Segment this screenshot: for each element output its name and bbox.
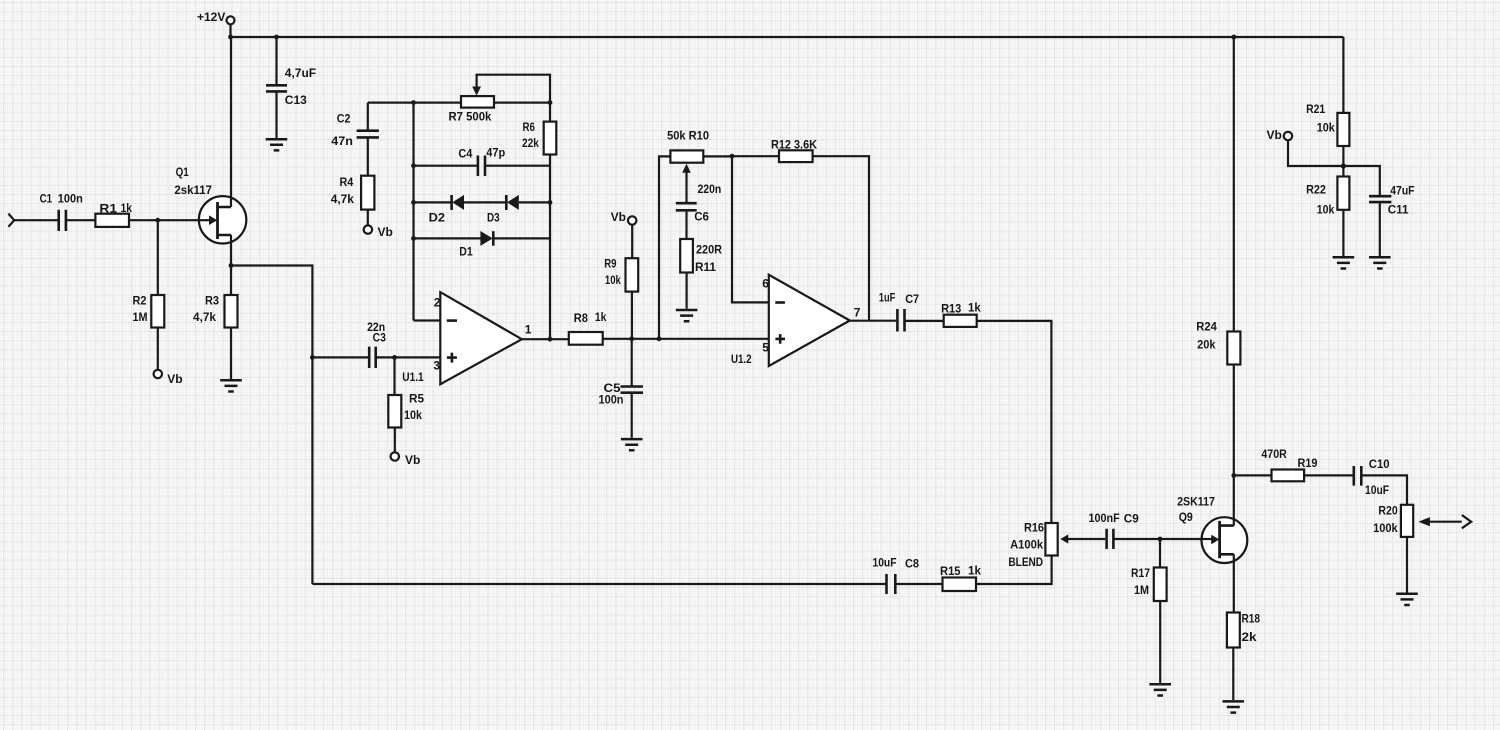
junction Vb divider node bbox=[1341, 163, 1346, 168]
wire Q9 source down bbox=[1233, 554, 1235, 612]
junction Q1 source node bbox=[229, 263, 234, 268]
wire R10 branch up bbox=[659, 156, 670, 338]
svg-text:47uF: 47uF bbox=[1390, 184, 1414, 198]
diode D2 bbox=[414, 195, 465, 225]
svg-text:R20: R20 bbox=[1378, 504, 1398, 518]
wire U1.2 output bbox=[850, 320, 897, 322]
svg-text:D2: D2 bbox=[429, 211, 446, 225]
svg-text:Vb: Vb bbox=[378, 225, 393, 239]
capacitor C9 100nF bbox=[1089, 511, 1140, 549]
svg-text:2sk117: 2sk117 bbox=[174, 183, 212, 197]
Vb terminal above R9 bbox=[611, 210, 637, 225]
resistor R15 1k bbox=[940, 564, 981, 592]
ground below R22 bbox=[1333, 257, 1355, 268]
svg-text:D1: D1 bbox=[459, 245, 473, 259]
wire R4 bottom stub bbox=[367, 210, 369, 226]
wire R17 to ground bbox=[1159, 601, 1161, 683]
wire R7 right terminal bbox=[494, 101, 550, 103]
junction R9/C5 on main line bbox=[629, 336, 634, 341]
wire C2 top node to R7 bbox=[368, 101, 461, 103]
resistor R5 10k bbox=[388, 392, 424, 428]
svg-text:1: 1 bbox=[525, 323, 532, 337]
wire Vb to R9 bbox=[631, 225, 633, 259]
ground below R17 bbox=[1149, 684, 1171, 695]
potentiometer R20 100k bbox=[1373, 504, 1462, 537]
resistor R21 10k bbox=[1306, 102, 1349, 146]
wire R19 to C10 bbox=[1304, 474, 1352, 476]
wire D2 to D3 bbox=[464, 201, 506, 203]
svg-text:10uF: 10uF bbox=[1365, 483, 1389, 497]
potentiometer R7 500k bbox=[449, 75, 551, 124]
svg-text:R16: R16 bbox=[1024, 521, 1044, 535]
wire R2 top stub bbox=[157, 220, 159, 295]
svg-text:U1.2: U1.2 bbox=[731, 352, 752, 366]
capacitor C6 220n bbox=[676, 182, 722, 224]
capacitor C7 1uF bbox=[879, 291, 919, 332]
svg-text:1M: 1M bbox=[133, 310, 148, 324]
wire R18 to ground bbox=[1232, 648, 1234, 701]
wire node B bus bbox=[549, 155, 551, 340]
junction Q9 drain/R19 bbox=[1231, 473, 1236, 478]
resistor R24 20k bbox=[1196, 319, 1240, 364]
wire C8 to R15 bbox=[896, 583, 942, 585]
svg-text:Q1: Q1 bbox=[176, 165, 189, 179]
wire R11 to ground bbox=[685, 273, 687, 309]
svg-text:2SK117: 2SK117 bbox=[1177, 495, 1215, 509]
resistor R13 1k bbox=[941, 300, 981, 327]
wire C13 bottom stub bbox=[275, 93, 277, 139]
svg-text:Vb: Vb bbox=[167, 372, 182, 386]
Vb terminal below R2 bbox=[154, 370, 183, 386]
svg-text:A100k: A100k bbox=[1010, 538, 1043, 552]
wire C3 left bbox=[312, 356, 368, 358]
svg-text:10k: 10k bbox=[605, 273, 621, 287]
wire Q1 source down bbox=[230, 235, 232, 295]
svg-text:10uF: 10uF bbox=[873, 555, 897, 569]
wire U1.2 inverting input branch bbox=[732, 156, 769, 302]
svg-text:Q9: Q9 bbox=[1179, 510, 1193, 524]
svg-text:R19: R19 bbox=[1298, 456, 1318, 470]
resistor R17 1M bbox=[1131, 566, 1167, 601]
svg-text:R1: R1 bbox=[99, 201, 117, 215]
wire R5 bottom stub bbox=[394, 428, 396, 453]
wire node A bus bbox=[412, 103, 414, 321]
capacitor C10 10uF bbox=[1354, 457, 1390, 497]
svg-text:R24: R24 bbox=[1196, 319, 1217, 333]
capacitor C4 47p bbox=[414, 146, 551, 176]
svg-text:R2: R2 bbox=[133, 294, 147, 308]
junction D1 line/node A bbox=[411, 236, 416, 241]
svg-text:C8: C8 bbox=[905, 557, 919, 571]
svg-text:2: 2 bbox=[434, 295, 441, 309]
diode D3 bbox=[487, 195, 550, 225]
capacitor C1 100n bbox=[40, 191, 83, 231]
capacitor C13 4,7uF bbox=[266, 66, 316, 107]
ground below C11 bbox=[1369, 257, 1391, 268]
wire Vb to divider node bbox=[1288, 140, 1343, 166]
svg-text:Vb: Vb bbox=[611, 210, 626, 224]
wire R15 to R16 bottom bbox=[976, 556, 1052, 585]
resistor R11 220R bbox=[680, 239, 722, 274]
junction node B top bbox=[548, 100, 553, 105]
wire U1.1 inverting input bbox=[414, 319, 441, 321]
svg-text:C1: C1 bbox=[40, 191, 53, 205]
wire R2 bottom stub bbox=[157, 328, 159, 370]
ground below C13 bbox=[266, 139, 288, 150]
svg-text:R12 3.6K: R12 3.6K bbox=[771, 138, 817, 152]
svg-text:5: 5 bbox=[762, 341, 769, 355]
resistor R12 3.6K bbox=[771, 138, 817, 163]
svg-text:R7 500k: R7 500k bbox=[449, 110, 492, 124]
junction D2 line/node A bbox=[411, 200, 416, 205]
ground below R20 bbox=[1396, 594, 1418, 605]
wire bottom dry rail bbox=[312, 583, 885, 585]
svg-text:6: 6 bbox=[762, 277, 769, 291]
wire C5 top stub bbox=[631, 339, 633, 386]
wire dry-signal path to bottom rail bbox=[231, 266, 312, 585]
wire R12 to U1.2 output bbox=[813, 156, 869, 320]
svg-text:2k: 2k bbox=[1242, 630, 1257, 644]
capacitor C3 22n bbox=[367, 320, 386, 368]
wire R22 to ground bbox=[1342, 210, 1344, 256]
junction rail/Q1 drain bbox=[228, 35, 233, 40]
svg-text:1uF: 1uF bbox=[879, 291, 895, 305]
wire R17 top stub bbox=[1159, 539, 1161, 568]
resistor R1 1k bbox=[95, 201, 132, 227]
wire C2 top stub bbox=[367, 103, 369, 130]
svg-text:R3: R3 bbox=[205, 294, 219, 308]
wire C10 to R20 top bbox=[1362, 475, 1407, 504]
wire R6 top stub bbox=[549, 103, 551, 122]
svg-text:C2: C2 bbox=[337, 111, 351, 125]
junction R10 branch on main line bbox=[657, 336, 662, 341]
potentiometer R16 A100k BLEND bbox=[1008, 521, 1105, 570]
svg-text:220R: 220R bbox=[696, 243, 722, 257]
svg-text:R5: R5 bbox=[409, 392, 424, 406]
wire R1 to Q1 gate bbox=[129, 219, 210, 221]
svg-text:100n: 100n bbox=[58, 191, 83, 205]
svg-text:10k: 10k bbox=[1317, 203, 1335, 217]
wire C13 top stub bbox=[275, 37, 277, 85]
resistor R19 470R bbox=[1261, 447, 1317, 481]
wire C5 to ground bbox=[631, 394, 633, 438]
svg-text:470R: 470R bbox=[1261, 447, 1287, 461]
svg-text:1k: 1k bbox=[595, 310, 607, 324]
junction node A top bbox=[411, 100, 416, 105]
wire U1.1 output bbox=[522, 338, 569, 340]
svg-text:+12V: +12V bbox=[197, 10, 225, 24]
svg-text:U1.1: U1.1 bbox=[402, 370, 424, 384]
svg-text:4,7uF: 4,7uF bbox=[285, 66, 316, 80]
resistor R4 4,7k bbox=[331, 175, 375, 209]
junction R10/R12/pin6 bbox=[730, 154, 735, 159]
svg-text:C10: C10 bbox=[1369, 457, 1390, 471]
svg-text:C7: C7 bbox=[905, 292, 919, 306]
potentiometer R10 50k bbox=[667, 128, 709, 202]
svg-text:C4: C4 bbox=[458, 147, 472, 161]
svg-text:100k: 100k bbox=[1373, 521, 1398, 535]
resistor R18 2k bbox=[1227, 612, 1260, 648]
svg-text:220n: 220n bbox=[698, 182, 722, 196]
svg-text:47p: 47p bbox=[486, 146, 505, 160]
resistor R9 10k bbox=[604, 257, 638, 292]
capacitor C2 47n bbox=[331, 111, 379, 147]
wire R3 bottom stub bbox=[230, 328, 232, 380]
svg-text:R13: R13 bbox=[941, 302, 961, 316]
svg-text:D3: D3 bbox=[487, 211, 500, 225]
+12V supply terminal bbox=[197, 10, 235, 25]
wire C11 to ground bbox=[1379, 203, 1381, 256]
svg-text:C13: C13 bbox=[285, 93, 307, 107]
Vb terminal below R4 bbox=[364, 225, 393, 239]
wire C3 to U1.1 non-inverting input bbox=[377, 356, 441, 358]
junction C4/node A bbox=[411, 163, 416, 168]
svg-text:1M: 1M bbox=[1134, 583, 1149, 597]
svg-text:R9: R9 bbox=[604, 257, 617, 271]
junction rail/R24 bbox=[1231, 35, 1236, 40]
svg-text:R22: R22 bbox=[1306, 183, 1326, 197]
svg-text:R11: R11 bbox=[695, 260, 716, 274]
svg-text:20k: 20k bbox=[1197, 338, 1216, 352]
svg-text:47n: 47n bbox=[331, 134, 353, 148]
diode D1 bbox=[414, 231, 551, 259]
ground below R11 bbox=[676, 310, 698, 321]
svg-text:100n: 100n bbox=[599, 392, 624, 406]
wire Q9 drain up to R24 bbox=[1233, 365, 1235, 526]
wire Q9 drain to R19 bbox=[1234, 474, 1272, 476]
wire R10 right terminal bbox=[703, 155, 732, 157]
wire R5 top stub bbox=[393, 357, 395, 395]
svg-text:R6: R6 bbox=[523, 120, 536, 134]
ground below R3 bbox=[220, 380, 242, 391]
junction C9/R17/gate bbox=[1158, 537, 1163, 542]
wire rail corner to R21 bbox=[1342, 37, 1344, 113]
wire C7 to R13 bbox=[906, 320, 944, 322]
svg-text:7: 7 bbox=[854, 305, 861, 319]
svg-text:4,7k: 4,7k bbox=[331, 192, 355, 206]
wire R13 to R16 top bbox=[977, 321, 1052, 523]
capacitor C5 100n bbox=[599, 381, 644, 406]
Vb terminal divider bbox=[1267, 128, 1293, 142]
wire divider node to C11 bbox=[1343, 166, 1379, 195]
op-amp U1.2 bbox=[731, 275, 861, 366]
ground below R18 bbox=[1223, 701, 1245, 712]
wire top power rail bbox=[231, 36, 1344, 38]
svg-text:1k: 1k bbox=[968, 564, 981, 578]
wire input to C1 bbox=[14, 219, 57, 221]
wire Q1 drain up bbox=[230, 37, 232, 207]
wire R20 bottom to ground bbox=[1406, 537, 1408, 593]
svg-text:Vb: Vb bbox=[1267, 128, 1282, 142]
svg-text:50k R10: 50k R10 bbox=[667, 128, 709, 142]
svg-text:100nF: 100nF bbox=[1089, 511, 1120, 525]
svg-text:10k: 10k bbox=[404, 408, 422, 422]
svg-text:R18: R18 bbox=[1242, 612, 1261, 626]
svg-text:R17: R17 bbox=[1131, 566, 1150, 580]
resistor R3 4,7k bbox=[193, 294, 238, 328]
resistor R6 22k bbox=[522, 120, 556, 155]
svg-text:C11: C11 bbox=[1388, 203, 1409, 217]
junction C3 tap on dry line bbox=[310, 355, 315, 360]
capacitor C11 47uF bbox=[1369, 184, 1415, 217]
wire C9 to Q9 gate bbox=[1114, 538, 1211, 540]
wire R24 to top rail bbox=[1233, 37, 1235, 332]
wire R12 left bbox=[732, 155, 779, 157]
svg-text:R8: R8 bbox=[574, 311, 588, 325]
resistor R8 1k bbox=[569, 310, 607, 345]
svg-text:10k: 10k bbox=[1317, 121, 1335, 135]
transistor Q1 2sk117 bbox=[174, 165, 246, 244]
svg-text:C3: C3 bbox=[373, 331, 387, 345]
svg-text:C6: C6 bbox=[694, 210, 709, 224]
svg-text:C9: C9 bbox=[1124, 511, 1139, 525]
junction D3 line/node B bbox=[548, 200, 553, 205]
transistor Q9 2SK117 bbox=[1177, 495, 1247, 563]
output connector bbox=[1462, 515, 1471, 528]
junction R1/R2/gate bbox=[155, 218, 160, 223]
svg-text:4,7k: 4,7k bbox=[193, 310, 216, 324]
capacitor C8 10uF bbox=[873, 555, 920, 594]
input connector bbox=[8, 214, 14, 227]
junction rail/C13 bbox=[274, 35, 279, 40]
wire R21 to R22 bbox=[1342, 146, 1344, 177]
junction R5 tap bbox=[392, 355, 397, 360]
svg-text:R4: R4 bbox=[340, 175, 354, 189]
svg-text:R15: R15 bbox=[940, 564, 961, 578]
ground below C5 bbox=[621, 439, 643, 450]
svg-text:1k: 1k bbox=[968, 300, 981, 314]
wire C6 to R11 bbox=[685, 211, 687, 239]
wire R8 to U1.2 non-inverting input bbox=[603, 338, 769, 340]
wire +12V stub bbox=[229, 24, 231, 37]
wire R9 to main line bbox=[631, 292, 633, 339]
svg-text:R21: R21 bbox=[1306, 102, 1325, 116]
resistor R22 10k bbox=[1306, 177, 1349, 217]
svg-text:BLEND: BLEND bbox=[1008, 555, 1043, 569]
svg-text:1k: 1k bbox=[121, 201, 133, 215]
wire C2 to R4 bbox=[367, 139, 369, 176]
wire C1 to R1 bbox=[67, 219, 95, 221]
resistor R2 1M bbox=[133, 294, 165, 328]
svg-text:3: 3 bbox=[433, 359, 440, 373]
svg-text:Vb: Vb bbox=[405, 453, 420, 467]
junction output/node B bbox=[548, 337, 553, 342]
svg-text:22k: 22k bbox=[522, 136, 539, 150]
op-amp U1.1 bbox=[402, 292, 531, 384]
Vb terminal below R5 bbox=[391, 452, 421, 467]
